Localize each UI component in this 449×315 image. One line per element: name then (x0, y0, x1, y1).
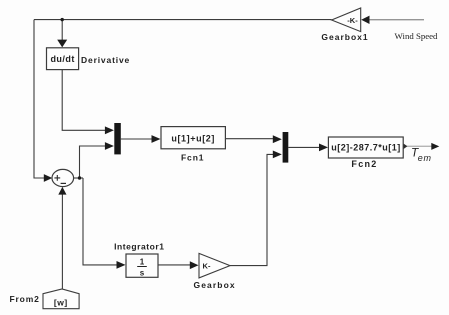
sum block (52, 169, 74, 186)
arrowhead into Integrator (117, 261, 126, 269)
arrowhead Tem output (pointing right) (431, 143, 439, 150)
svg-text:From2: From2 (9, 294, 39, 304)
wire Gearbox1 input from right edge (369, 19, 425, 21)
arrowhead into Mux2 input 1 (273, 135, 282, 143)
block Integrator1 (1/s) (126, 254, 158, 277)
wire Fcn1 output to Mux2 input 1 (225, 138, 273, 140)
svg-text:-K-: -K- (347, 16, 358, 25)
block From2 tag (43, 289, 79, 309)
svg-text:[w]: [w] (54, 297, 68, 307)
block Fcn1 (161, 127, 225, 149)
mux Mux1 (114, 123, 121, 154)
wire sum output to branch point (74, 177, 83, 179)
svg-text:s: s (140, 268, 145, 277)
label Tem (411, 145, 432, 163)
arrowhead into Fcn2 (319, 144, 328, 152)
svg-text:Fcn1: Fcn1 (181, 153, 204, 163)
wire Integrator output to Gearbox (158, 264, 191, 266)
wire branch down to Integrator input (83, 178, 117, 265)
wire junction drop to Derivative (61, 20, 63, 40)
arrowhead into Fcn1 (152, 135, 161, 143)
junction dot top wire (61, 18, 64, 21)
block Fcn2 (328, 137, 403, 158)
junction dot sum output branch (78, 176, 81, 179)
svg-text:du/dt: du/dt (50, 54, 75, 64)
svg-text:Wind Speed: Wind Speed (395, 31, 438, 41)
arrowhead into sum bottom input (58, 187, 66, 195)
wire From2 up to sum minus input (61, 194, 63, 289)
svg-text:Derivative: Derivative (81, 55, 130, 65)
wire top horizontal from left riser to Gearbox1 apex (34, 19, 332, 21)
svg-text:1: 1 (140, 258, 145, 267)
wire branch up to Mux1 input 2 (80, 146, 106, 178)
arrowhead into Derivative (57, 40, 67, 48)
mux Mux2 (283, 132, 289, 163)
svg-text:Integrator1: Integrator1 (114, 242, 164, 252)
arrowhead into Mux1 input 1 (105, 126, 114, 134)
output port chevron of Fcn2 (404, 144, 408, 149)
wire left riser down to sum input (34, 20, 44, 178)
svg-text:u[2]-287.7*u[1]: u[2]-287.7*u[1] (331, 143, 401, 153)
block Derivative (du/dt) (47, 48, 79, 70)
gain Gearbox (triangle pointing right) (199, 253, 230, 278)
wire Mux2 output to Fcn2 (288, 146, 320, 148)
gain Gearbox1 (triangle pointing left) (332, 8, 361, 32)
wire Mux1 output to Fcn1 (121, 138, 152, 140)
arrowhead into Mux1 input 2 (105, 142, 114, 150)
wire Fcn2 output to Tem arrow (403, 145, 431, 147)
svg-text:u[1]+u[2]: u[1]+u[2] (171, 133, 215, 143)
wire Gearbox output up to Mux2 input 2 (230, 154, 273, 265)
svg-text:em: em (418, 153, 432, 163)
svg-text:Gearbox1: Gearbox1 (321, 32, 368, 42)
arrowhead into Gearbox (190, 261, 199, 269)
arrowhead into Gearbox1 (pointing left) (361, 16, 369, 24)
svg-text:Fcn2: Fcn2 (351, 159, 377, 169)
wire Derivative output down and right to Mux1 input 1 (62, 70, 105, 131)
svg-text:K-: K- (203, 261, 211, 270)
svg-text:Gearbox: Gearbox (194, 280, 236, 290)
arrowhead into Mux2 input 2 (273, 151, 282, 159)
arrowhead into sum left input (44, 174, 53, 182)
